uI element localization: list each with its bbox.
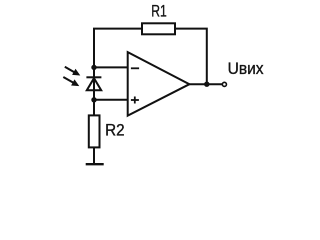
ground xyxy=(86,163,104,165)
wire photodiode vertical xyxy=(93,67,95,115)
plus sign non-inverting input xyxy=(131,97,139,104)
light arrow 1 xyxy=(65,67,81,76)
resistor R1 xyxy=(142,23,175,34)
svg-text:R1: R1 xyxy=(151,3,167,21)
svg-text:R2: R2 xyxy=(105,122,125,140)
svg-text:Uвих: Uвих xyxy=(228,60,265,78)
junction node at non-inverting input xyxy=(91,97,96,102)
wire top feedback from left vertical to right vertical xyxy=(94,29,207,85)
light arrow 2 xyxy=(63,77,79,86)
wire R2 bottom to ground xyxy=(93,147,95,164)
photodiode VD1 xyxy=(86,77,101,90)
junction node at inverting input xyxy=(91,65,96,70)
wire non-inverting input xyxy=(94,99,128,101)
op-amp U1 xyxy=(128,52,190,116)
output terminal circle xyxy=(222,82,226,86)
diode cathode bar xyxy=(86,76,101,78)
diode triangle xyxy=(87,78,101,90)
resistor R2 xyxy=(89,115,100,147)
minus sign inverting input xyxy=(131,67,139,69)
wire inverting input xyxy=(94,66,128,68)
wire output from op-amp apex to terminal xyxy=(189,83,222,85)
junction node at output xyxy=(204,82,209,87)
